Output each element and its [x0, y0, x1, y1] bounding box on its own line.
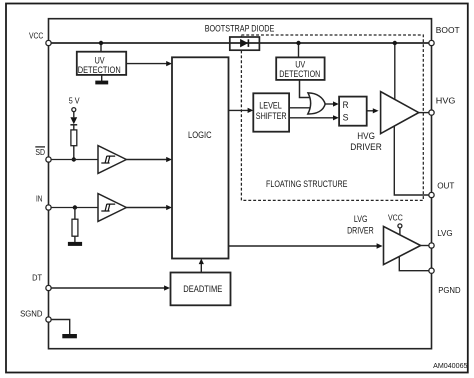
svg-text:VCC: VCC: [29, 30, 43, 40]
wire HVG driver return to OUT pin: [394, 126, 431, 195]
junction on VCC rail at UV detection: [99, 41, 103, 45]
svg-text:HVG: HVG: [436, 96, 456, 106]
svg-text:S: S: [343, 112, 349, 123]
block UV detection (VCC side): [77, 52, 126, 75]
wire LEVEL SHIFTER to S input with arrow: [289, 115, 339, 120]
wire LOGIC to LVG driver with arrow: [229, 243, 383, 248]
bootstrap diode symbol: [241, 39, 249, 47]
floating structure dashed boundary: [241, 35, 423, 200]
IC boundary box: [49, 19, 432, 349]
pin BOOT: [429, 25, 460, 45]
ground at SGND: [62, 334, 77, 338]
svg-text:HVG: HVG: [357, 131, 375, 141]
bootstrap diode box: [230, 37, 260, 50]
svg-text:LVG: LVG: [354, 214, 368, 224]
svg-text:VCC: VCC: [388, 213, 403, 223]
wire LEVEL SHIFTER to OR gate: [289, 107, 312, 109]
junction on SD wire: [72, 157, 76, 161]
block LOGIC: [172, 57, 229, 258]
pin VCC: [29, 30, 51, 45]
svg-text:SGND: SGND: [20, 309, 42, 319]
label HVG DRIVER: [350, 131, 382, 152]
pin DT: [32, 272, 51, 290]
svg-text:DETECTION: DETECTION: [78, 65, 121, 75]
schmitt trigger buffer SD: [98, 146, 126, 174]
svg-text:DRIVER: DRIVER: [347, 225, 374, 235]
wire SD pin to schmitt buffer: [51, 159, 98, 161]
junction on VCC rail at floating UV detection: [296, 41, 300, 45]
VCC supply node at LVG driver: [398, 224, 402, 235]
pin PGND: [429, 268, 461, 295]
svg-text:AM040065: AM040065: [433, 361, 467, 370]
svg-text:DT: DT: [32, 272, 42, 282]
ground under UV detection: [95, 75, 108, 85]
svg-text:LOGIC: LOGIC: [188, 130, 212, 141]
svg-text:IN: IN: [36, 194, 42, 204]
svg-text:DEADTIME: DEADTIME: [183, 283, 222, 294]
wire SGND pin to ground: [51, 320, 70, 335]
junction on IN wire: [73, 205, 77, 209]
wire HVG driver output to HVG pin: [419, 112, 432, 114]
block UV detection (floating): [276, 57, 324, 80]
svg-text:OUT: OUT: [437, 181, 454, 191]
wire VCC rail to floating UV detection: [298, 43, 300, 57]
wire LVG driver return to PGND pin: [399, 257, 431, 271]
svg-text:R: R: [343, 100, 349, 111]
OR gate: [308, 93, 325, 114]
wire floating UV detection to OR gate: [300, 80, 312, 98]
svg-text:BOOT: BOOT: [436, 25, 460, 35]
wire IN pin to schmitt buffer: [51, 207, 98, 209]
block LEVEL SHIFTER: [253, 93, 289, 131]
svg-text:DRIVER: DRIVER: [350, 142, 382, 152]
block RS latch: [339, 97, 367, 126]
wire LVG driver output to LVG pin: [421, 245, 432, 247]
wire DEADTIME to LOGIC with arrow: [199, 259, 204, 273]
svg-text:5 V: 5 V: [69, 96, 80, 105]
pin SGND: [20, 309, 51, 323]
pin OUT: [429, 181, 455, 198]
pin HVG: [429, 96, 456, 116]
svg-text:BOOTSTRAP DIODE: BOOTSTRAP DIODE: [205, 23, 275, 33]
5V supply node: [69, 96, 80, 111]
wire RS latch to HVG driver with arrow: [367, 108, 379, 113]
svg-text:FLOATING STRUCTURE: FLOATING STRUCTURE: [266, 178, 347, 189]
svg-text:UV: UV: [95, 55, 106, 65]
pin LVG: [429, 228, 453, 248]
svg-text:SD: SD: [35, 147, 45, 157]
wire UV detection to LOGIC with arrow: [126, 61, 172, 66]
pin IN: [36, 194, 51, 211]
label LVG DRIVER: [347, 214, 374, 236]
wire OR gate to R input with arrow: [325, 101, 339, 106]
svg-text:LVG: LVG: [437, 228, 453, 238]
block DEADTIME: [171, 273, 231, 306]
resistor SD pull-up: [71, 125, 77, 160]
wire LOGIC to LEVEL SHIFTER with arrow: [229, 108, 254, 113]
svg-text:SHIFTER: SHIFTER: [256, 110, 287, 121]
junction on VCC rail at HVG driver: [393, 41, 397, 45]
pin SD (active low): [35, 147, 51, 162]
wire BOOT rail to HVG driver supply: [394, 43, 396, 100]
svg-text:PGND: PGND: [438, 285, 460, 295]
svg-text:DETECTION: DETECTION: [279, 69, 320, 79]
wire DT pin to DEADTIME with arrow: [51, 285, 170, 290]
HVG driver amplifier: [381, 92, 419, 134]
diode on SD pull-up: [70, 112, 77, 125]
resistor IN pull-down: [72, 208, 78, 243]
wire VCC rail: [49, 42, 432, 44]
schmitt trigger buffer IN: [98, 194, 126, 222]
LVG driver amplifier: [384, 226, 421, 264]
wire IN schmitt to LOGIC with arrow: [126, 205, 172, 210]
svg-text:LEVEL: LEVEL: [259, 99, 282, 110]
wire SD schmitt to LOGIC with arrow: [126, 157, 172, 162]
wire VCC rail to UV detection: [100, 43, 102, 52]
ground under IN resistor: [68, 242, 82, 246]
